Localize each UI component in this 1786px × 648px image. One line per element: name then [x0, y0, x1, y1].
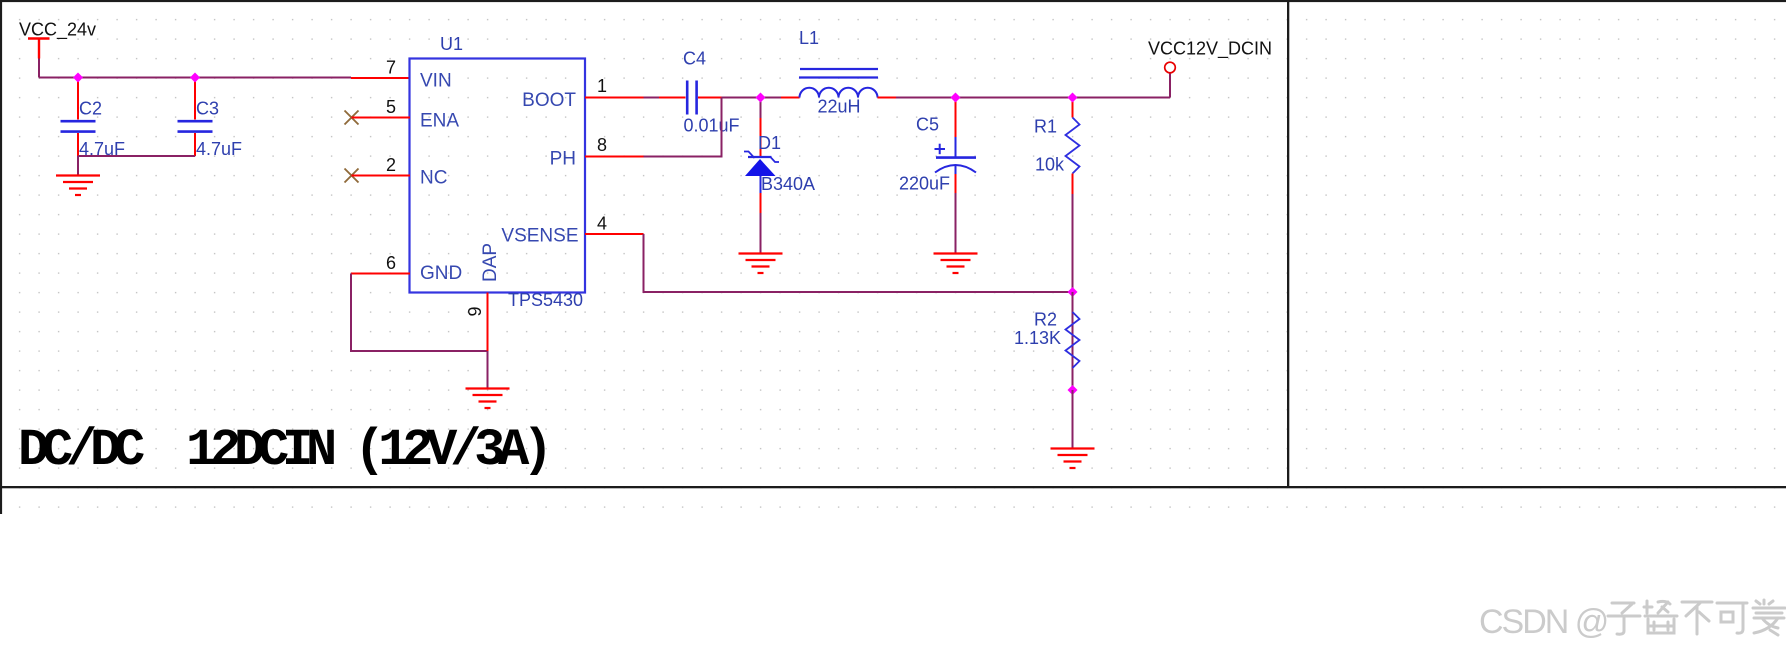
ke — [1717, 603, 1747, 633]
svg-text:GND: GND — [420, 263, 462, 284]
svg-text:2: 2 — [386, 155, 396, 175]
svg-text:VCC12V_DCIN: VCC12V_DCIN — [1148, 39, 1272, 60]
svg-text:0.01uF: 0.01uF — [684, 116, 740, 136]
ground under R2 — [1051, 449, 1095, 469]
pin 7 stub VIN — [351, 77, 410, 79]
junction at C2 — [73, 73, 83, 83]
junction at D1 top — [756, 93, 766, 103]
svg-text:1: 1 — [597, 76, 607, 96]
svg-text:VIN: VIN — [420, 71, 452, 92]
svg-text:DC/DC 12DCIN (12V/3A): DC/DC 12DCIN (12V/3A) — [18, 421, 546, 480]
pin 2 stub NC — [352, 175, 411, 177]
svg-text:5: 5 — [386, 97, 396, 117]
junction at R1/R2/VSENSE — [1068, 287, 1078, 297]
pin 1 stub BOOT — [585, 97, 644, 99]
svg-text:C2: C2 — [79, 99, 102, 119]
sheet frame bottom border — [0, 486, 1786, 488]
pin 5 stub ENA — [352, 117, 411, 119]
pin 9 stub DAP — [487, 293, 489, 352]
wire VCC_24v vertical — [38, 59, 40, 78]
ground under C2 — [56, 176, 100, 196]
ground under C5 — [934, 254, 978, 274]
wire GND pin down and right — [351, 274, 488, 352]
capacitor C4 — [659, 49, 740, 136]
svg-text:D1: D1 — [758, 133, 781, 153]
svg-text:R2: R2 — [1034, 310, 1057, 330]
wire PH to C4 right corner — [644, 98, 722, 157]
svg-text:220uF: 220uF — [899, 174, 950, 194]
wire C3 bottom to C2 bottom — [78, 155, 195, 157]
sheet frame left border — [0, 0, 2, 514]
grid dots — [12, 12, 1786, 512]
jiang — [1644, 601, 1677, 633]
svg-text:C5: C5 — [916, 115, 939, 135]
wire main VIN bus — [39, 77, 351, 79]
svg-text:7: 7 — [386, 58, 396, 78]
junction at C5 top — [951, 93, 961, 103]
svg-text:R1: R1 — [1034, 117, 1057, 137]
wire output up to port — [1169, 73, 1171, 98]
wire R1 bottom to VSENSE node — [1072, 194, 1074, 292]
svg-text:L1: L1 — [799, 28, 819, 48]
pin 8 stub PH — [585, 156, 644, 158]
pin 4 stub VSENSE — [585, 233, 644, 235]
capacitor C2 — [61, 78, 126, 160]
pin 6 stub GND — [351, 273, 410, 275]
capacitor C5 220uF — [899, 99, 976, 194]
junction at R2 bottom — [1068, 385, 1078, 395]
no-connect X on pin 2 — [345, 169, 359, 183]
diode D1 B340A — [744, 99, 815, 213]
inductor L1 — [781, 28, 896, 117]
wire DAP to ground — [487, 351, 489, 389]
svg-text:VSENSE: VSENSE — [501, 226, 578, 247]
svg-text:TPS5430: TPS5430 — [508, 290, 583, 310]
svg-text:U1: U1 — [440, 34, 463, 54]
svg-text:BOOT: BOOT — [522, 90, 576, 111]
svg-text:6: 6 — [386, 253, 396, 273]
wire R2 to ground — [1072, 390, 1074, 449]
wire C2 bottom to ground — [77, 156, 79, 176]
svg-text:VCC_24v: VCC_24v — [19, 20, 96, 41]
svg-text:DAP: DAP — [480, 243, 501, 282]
zi — [1608, 603, 1640, 634]
power symbol VCC_24v — [28, 39, 50, 59]
watermark CJK glyphs — [1608, 600, 1785, 635]
wire L1 to output — [896, 97, 1170, 99]
wire BOOT to C4 — [644, 97, 660, 99]
svg-text:4: 4 — [597, 214, 607, 234]
ground under D1 — [739, 254, 783, 274]
svg-text:NC: NC — [420, 168, 447, 189]
svg-text:9: 9 — [465, 306, 485, 316]
wire C5 to ground — [955, 193, 957, 254]
wire VSENSE down and right to R1/R2 — [644, 234, 1073, 292]
svg-text:4.7uF: 4.7uF — [196, 139, 242, 159]
ai — [1753, 600, 1785, 635]
sheet frame top border — [0, 0, 1786, 2]
svg-text:1.13K: 1.13K — [1014, 328, 1061, 348]
junction at C3 — [190, 73, 200, 83]
svg-text:8: 8 — [597, 135, 607, 155]
wire D1 to ground — [760, 213, 762, 254]
bu — [1682, 602, 1712, 634]
op-amp U1 IC box TPS5430 — [410, 59, 586, 293]
svg-text:C4: C4 — [683, 49, 706, 69]
junction at R1 top — [1068, 93, 1078, 103]
svg-text:22uH: 22uH — [818, 97, 861, 117]
wire top bus C4 to L1 — [722, 97, 782, 99]
resistor R1 10k — [1034, 99, 1080, 194]
svg-text:PH: PH — [550, 149, 576, 170]
capacitor C3 — [178, 78, 243, 160]
no-connect X on pin 5 — [345, 111, 359, 125]
svg-text:10k: 10k — [1035, 155, 1065, 175]
svg-text:ENA: ENA — [420, 111, 459, 132]
sheet frame vertical divider — [1287, 0, 1289, 487]
svg-text:CSDN @: CSDN @ — [1479, 603, 1607, 641]
svg-text:C3: C3 — [196, 99, 219, 119]
port terminal VCC12V_DCIN — [1165, 62, 1176, 73]
svg-text:B340A: B340A — [761, 174, 815, 194]
ground under DAP — [466, 389, 510, 409]
resistor R2 1.13K — [1014, 292, 1080, 390]
